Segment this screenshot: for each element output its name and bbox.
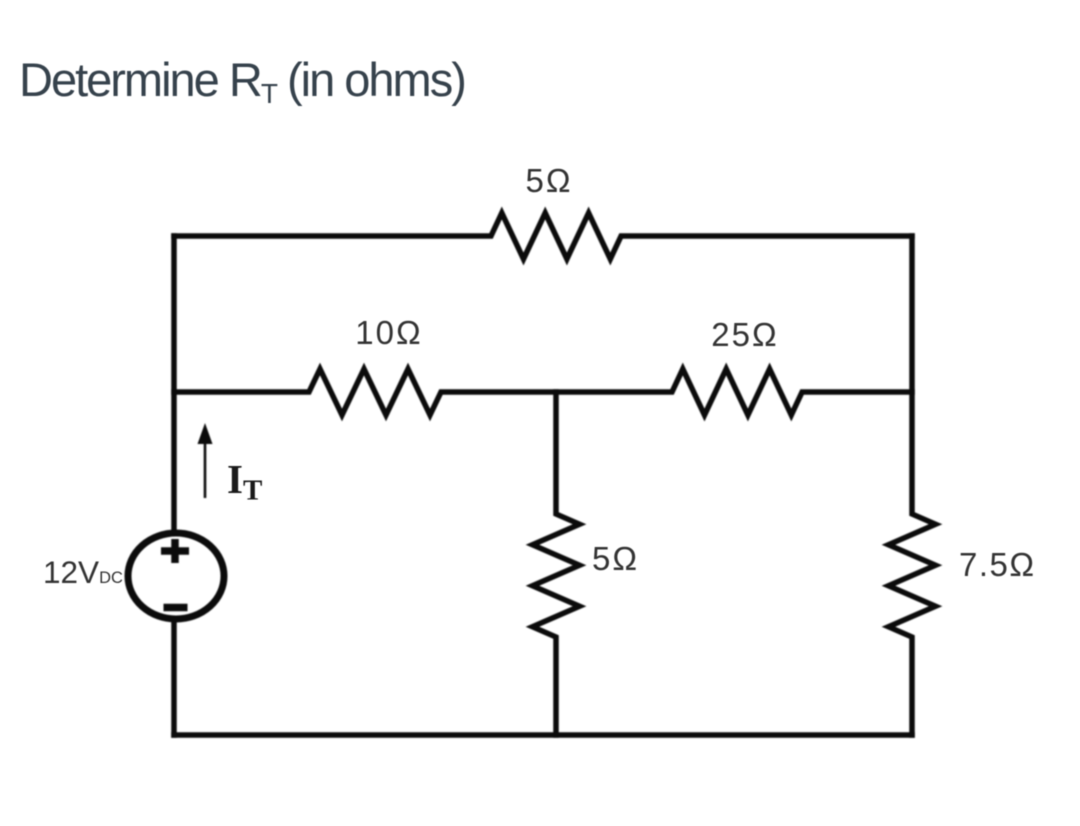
svg-text:5Ω: 5Ω [525,162,572,199]
svg-text:IT: IT [227,456,262,507]
svg-text:Determine RT (in ohms): Determine RT (in ohms) [19,53,465,109]
svg-text:12VDC: 12VDC [43,554,123,590]
svg-text:25Ω: 25Ω [711,316,778,353]
svg-text:10Ω: 10Ω [355,314,422,351]
svg-text:5Ω: 5Ω [592,540,639,577]
svg-text:7.5Ω: 7.5Ω [959,546,1036,583]
